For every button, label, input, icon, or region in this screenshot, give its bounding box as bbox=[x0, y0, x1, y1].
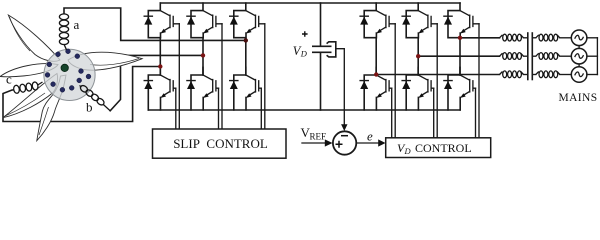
wire inverter phase 2 (mid) to line inductor bbox=[418, 55, 499, 57]
wire L5 to source G2 bbox=[560, 55, 572, 57]
svg-text:D: D bbox=[404, 146, 412, 156]
mains inductor L4 bbox=[536, 34, 560, 41]
wire L2 to bus A bbox=[524, 55, 528, 57]
svg-text:CONTROL: CONTROL bbox=[415, 141, 472, 155]
svg-text:D: D bbox=[300, 48, 308, 58]
stator coil c bbox=[12, 82, 43, 94]
turbine blade right bbox=[68, 52, 142, 70]
AC source G2 bbox=[571, 48, 587, 64]
generator rotor disc bbox=[44, 49, 95, 100]
wire top DC rail bbox=[160, 2, 460, 4]
wire rectifier leg C midpoint bbox=[245, 38, 247, 75]
wire inverter leg A midpoint bbox=[375, 38, 377, 75]
summing junction bbox=[333, 131, 356, 154]
node inverter phase 3 junction bbox=[374, 72, 378, 76]
turbine blade down-left bbox=[3, 74, 58, 118]
wire G2 to neutral bus bbox=[587, 55, 598, 57]
line inductor L1 bbox=[500, 34, 524, 41]
svg-text:REF: REF bbox=[310, 132, 327, 142]
wire phase a from coil a to rectifier leg 3 bbox=[64, 8, 246, 40]
wire L6 to source G3 bbox=[560, 74, 572, 76]
turbine blade down bbox=[37, 75, 66, 141]
line inductor L2 bbox=[500, 53, 524, 60]
svg-text:e: e bbox=[367, 129, 373, 144]
gate wires inverter leg A to VD CONTROL bbox=[392, 24, 396, 138]
IGBT Q10 with diode D10 (inverter leg B bottom) bbox=[402, 67, 434, 110]
arrowhead into VD CONTROL bbox=[378, 139, 385, 146]
rotor hub bbox=[61, 64, 68, 71]
wire L4 to source G1 bbox=[560, 37, 572, 39]
node inverter phase 2 junction bbox=[416, 54, 420, 58]
IGBT Q2 with diode D2 (rectifier leg A bottom) bbox=[144, 67, 176, 110]
IGBT Q6 with diode D6 (rectifier leg C bottom) bbox=[230, 67, 262, 110]
turbine blade up-left bbox=[8, 15, 60, 61]
svg-text:a: a bbox=[74, 17, 80, 32]
gate wires inverter leg B to VD CONTROL bbox=[434, 24, 438, 138]
wire DC bus upper (top rail to capacitor) bbox=[320, 3, 322, 46]
SLIP CONTROL box bbox=[153, 129, 287, 158]
wire inverter phase 3 (bottom) to line inductor bbox=[376, 74, 499, 76]
IGBT Q5 with diode D5 (rectifier leg C top) bbox=[230, 3, 265, 38]
svg-text:b: b bbox=[86, 100, 93, 115]
wire between G2 and G3 bbox=[578, 64, 580, 67]
wire phase c bottom route to rectifier leg 1 bbox=[3, 67, 160, 122]
IGBT Q11 with diode D11 (inverter leg C top) bbox=[444, 3, 479, 38]
wire rectifier leg A midpoint bbox=[159, 38, 161, 75]
node rectifier phase a junction bbox=[244, 38, 248, 42]
mains inductor L6 bbox=[536, 71, 560, 78]
mains inductor L5 bbox=[536, 53, 560, 60]
bus bar B bbox=[531, 33, 533, 80]
gate wires rectifier leg A to SLIP CONTROL bbox=[176, 24, 180, 130]
node rectifier phase c junction bbox=[158, 64, 162, 68]
node inverter phase 1 junction bbox=[458, 36, 462, 40]
arrowhead of VD sense wire bbox=[341, 124, 347, 131]
IGBT Q9 with diode D9 (inverter leg B top) bbox=[402, 3, 437, 38]
wire bus B to inductor L6 bbox=[532, 74, 536, 76]
bus bar A bbox=[527, 33, 529, 80]
wire inverter phase 1 (top) to line inductor bbox=[460, 37, 500, 39]
gate wires rectifier leg C to SLIP CONTROL bbox=[261, 24, 265, 130]
wire G1 to neutral bus bbox=[587, 37, 598, 39]
node rectifier phase b junction bbox=[201, 53, 205, 57]
wire between G1 and G2 bbox=[578, 46, 580, 49]
capacitor C1 negative bracket bbox=[327, 42, 336, 57]
VD sense wire to summing junction bbox=[336, 49, 345, 125]
plus label of DC link bbox=[302, 31, 308, 37]
VD CONTROL box bbox=[386, 138, 491, 158]
svg-text:MAINS: MAINS bbox=[558, 92, 597, 104]
wire bus B to inductor L4 bbox=[532, 37, 536, 39]
wire DC bus lower (capacitor to bottom rail) bbox=[320, 53, 322, 110]
wire bus B to inductor L5 bbox=[532, 55, 536, 57]
wire rectifier leg B midpoint bbox=[202, 38, 204, 75]
IGBT Q4 with diode D4 (rectifier leg B bottom) bbox=[187, 67, 219, 110]
IGBT Q1 with diode D1 (rectifier leg A top) bbox=[144, 3, 179, 38]
stator coil a bbox=[59, 14, 68, 50]
wire G3 to neutral bus bbox=[587, 74, 598, 76]
wire inverter leg C midpoint bbox=[459, 38, 461, 75]
error e arrow wire to VD CONTROL bbox=[356, 142, 379, 144]
rotor slip-ring dots bbox=[45, 49, 91, 92]
IGBT Q12 with diode D12 (inverter leg C bottom) bbox=[444, 67, 476, 110]
IGBT Q7 with diode D7 (inverter leg A top) bbox=[360, 3, 395, 38]
VREF arrowhead bbox=[325, 139, 333, 146]
turbine blade left bbox=[0, 64, 58, 77]
wire L3 to bus A bbox=[524, 74, 528, 76]
gate wires rectifier leg B to SLIP CONTROL bbox=[219, 24, 223, 130]
plus sign in summing junction bbox=[336, 141, 343, 148]
wire phase b riser to rectifier leg 2 bbox=[110, 55, 203, 110]
stator coil b bbox=[79, 84, 110, 111]
wire bottom DC rail bbox=[148, 109, 460, 111]
IGBT Q8 with diode D8 (inverter leg A bottom) bbox=[360, 67, 392, 110]
VREF arrow wire bbox=[302, 142, 326, 144]
wire inverter leg B midpoint bbox=[417, 38, 419, 75]
neutral bus wire bbox=[596, 38, 598, 75]
AC source G3 bbox=[571, 67, 587, 83]
AC source G1 bbox=[571, 30, 587, 46]
gate wires inverter leg C to VD CONTROL bbox=[476, 24, 480, 138]
wire L1 to bus A bbox=[524, 37, 528, 39]
svg-text:SLIP CONTROL: SLIP CONTROL bbox=[173, 136, 268, 151]
svg-text:c: c bbox=[6, 72, 12, 87]
line inductor L3 bbox=[500, 71, 524, 78]
minus sign in summing junction bbox=[341, 135, 348, 137]
capacitor C1 plates bbox=[312, 46, 332, 52]
IGBT Q3 with diode D3 (rectifier leg B top) bbox=[187, 3, 222, 38]
